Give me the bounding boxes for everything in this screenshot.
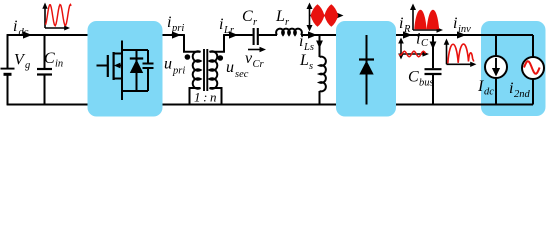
mosfet vertical leg <box>121 50 123 91</box>
svg-text:i: i <box>219 16 223 33</box>
svg-text:dc: dc <box>19 27 29 38</box>
battery V_g <box>1 69 15 75</box>
core line right <box>206 49 208 91</box>
svg-text:i: i <box>509 80 513 97</box>
body diode inside inverter <box>130 50 143 91</box>
primary top lead <box>184 35 201 52</box>
wire C_in branch <box>44 35 46 105</box>
svg-text:i: i <box>453 15 457 32</box>
svg-text:bus: bus <box>419 78 434 89</box>
svg-text:dc: dc <box>484 87 494 98</box>
svg-text:C: C <box>44 50 55 67</box>
L_s branch: i_Ls arrow <box>319 35 321 57</box>
ringing waveform axes right <box>447 43 472 64</box>
wire bottom rail left section <box>7 104 88 106</box>
svg-text:u: u <box>164 56 172 73</box>
core line left <box>203 49 205 91</box>
arrow i_pri on rail <box>172 31 181 38</box>
svg-text:C: C <box>421 38 429 49</box>
svg-text:u: u <box>226 59 234 76</box>
svg-text:pri: pri <box>172 66 185 77</box>
capacitor C_r <box>254 28 258 45</box>
current source I_dc <box>495 35 497 56</box>
red humps waveform i_R <box>414 10 439 30</box>
source arrow shaft <box>118 65 122 67</box>
wire L_s to bottom rail <box>319 91 321 105</box>
secondary winding <box>210 51 218 88</box>
secondary top lead <box>210 35 225 52</box>
v_Cr arrow <box>248 49 261 51</box>
svg-text:Cr: Cr <box>253 59 265 70</box>
svg-text:i: i <box>167 14 171 31</box>
arrow i_inv on rail <box>457 31 466 38</box>
svg-text:i: i <box>13 18 17 35</box>
MOSFET Q1 inside inverter <box>97 50 123 91</box>
capacitor C_bus <box>425 69 442 74</box>
svg-text:pri: pri <box>171 23 184 34</box>
svg-text:R: R <box>403 24 411 35</box>
wire top rail inverter to transformer <box>163 34 185 36</box>
rectifier block box <box>336 21 396 117</box>
cell bottom pin stub <box>121 91 123 100</box>
svg-text:inv: inv <box>458 24 471 35</box>
inverter block box <box>88 21 163 117</box>
wire bottom rail right section <box>396 104 533 106</box>
svg-text:sec: sec <box>235 69 249 80</box>
mini axes near i_C <box>401 41 424 56</box>
gate bar <box>107 55 109 77</box>
arrow i_R on rail <box>403 31 412 38</box>
capacitor C_in <box>37 69 52 75</box>
arrow before L_s junction <box>308 31 317 38</box>
polarity dot primary <box>185 54 191 60</box>
arrow i_dc on top rail <box>23 31 32 38</box>
svg-text:s: s <box>309 61 313 72</box>
svg-text:i: i <box>399 15 403 32</box>
svg-text:i: i <box>299 33 303 50</box>
svg-text:Lr: Lr <box>223 25 235 36</box>
wire top rail rectifier to sources <box>396 34 533 36</box>
svg-text:I: I <box>477 78 484 95</box>
inductor L_s <box>320 57 326 92</box>
C_bus branch wire with i_C arrow <box>432 35 434 68</box>
red envelope waveform <box>311 4 339 26</box>
svg-text:1 : n: 1 : n <box>194 90 217 105</box>
source block box <box>481 21 546 116</box>
source stub <box>114 78 122 80</box>
drain stub <box>114 53 122 55</box>
waveform bowtie axes <box>310 7 339 28</box>
svg-text:in: in <box>55 59 63 70</box>
cell top pin stub <box>121 41 123 51</box>
wire top rail secondary to C_r <box>223 34 252 36</box>
wire left vertical bottom <box>7 76 9 106</box>
mosfet arrow head <box>114 63 121 69</box>
svg-text:2nd: 2nd <box>514 89 531 100</box>
cell top node rail <box>122 49 148 51</box>
red sine wave top-left <box>46 5 72 26</box>
gate lead <box>97 65 108 67</box>
svg-text:L: L <box>299 52 309 69</box>
primary bottom lead <box>190 88 201 105</box>
waveform i_R axes <box>413 8 438 30</box>
wire top rail L_r to rectifier <box>301 34 336 36</box>
inductor L_r <box>276 29 302 35</box>
wire top rail left section <box>7 34 88 36</box>
wire left vertical top <box>7 34 9 68</box>
wire bottom rail middle section <box>163 104 337 106</box>
secondary bottom lead <box>210 88 222 105</box>
red ripple sine near i_C <box>399 51 426 57</box>
transformer T1 <box>184 35 224 105</box>
waveform axes top-left (i_dc sine) <box>45 7 65 28</box>
red ringing sine <box>448 44 474 63</box>
svg-text:i: i <box>416 31 420 48</box>
svg-text:C: C <box>242 8 253 25</box>
diode D1 inside rectifier <box>366 35 368 105</box>
AC source i_2nd <box>532 35 534 57</box>
wire top rail C_r to L_r <box>259 34 277 36</box>
channel bar <box>112 52 114 80</box>
svg-text:g: g <box>25 60 30 71</box>
polarity dot secondary <box>218 55 224 61</box>
svg-text:C: C <box>408 69 419 86</box>
svg-text:L: L <box>275 8 285 25</box>
snubber capacitor inside inverter <box>143 50 154 91</box>
arrow i_Lr on rail <box>229 31 238 38</box>
primary winding <box>193 51 201 88</box>
cell bottom node rail <box>122 90 148 92</box>
